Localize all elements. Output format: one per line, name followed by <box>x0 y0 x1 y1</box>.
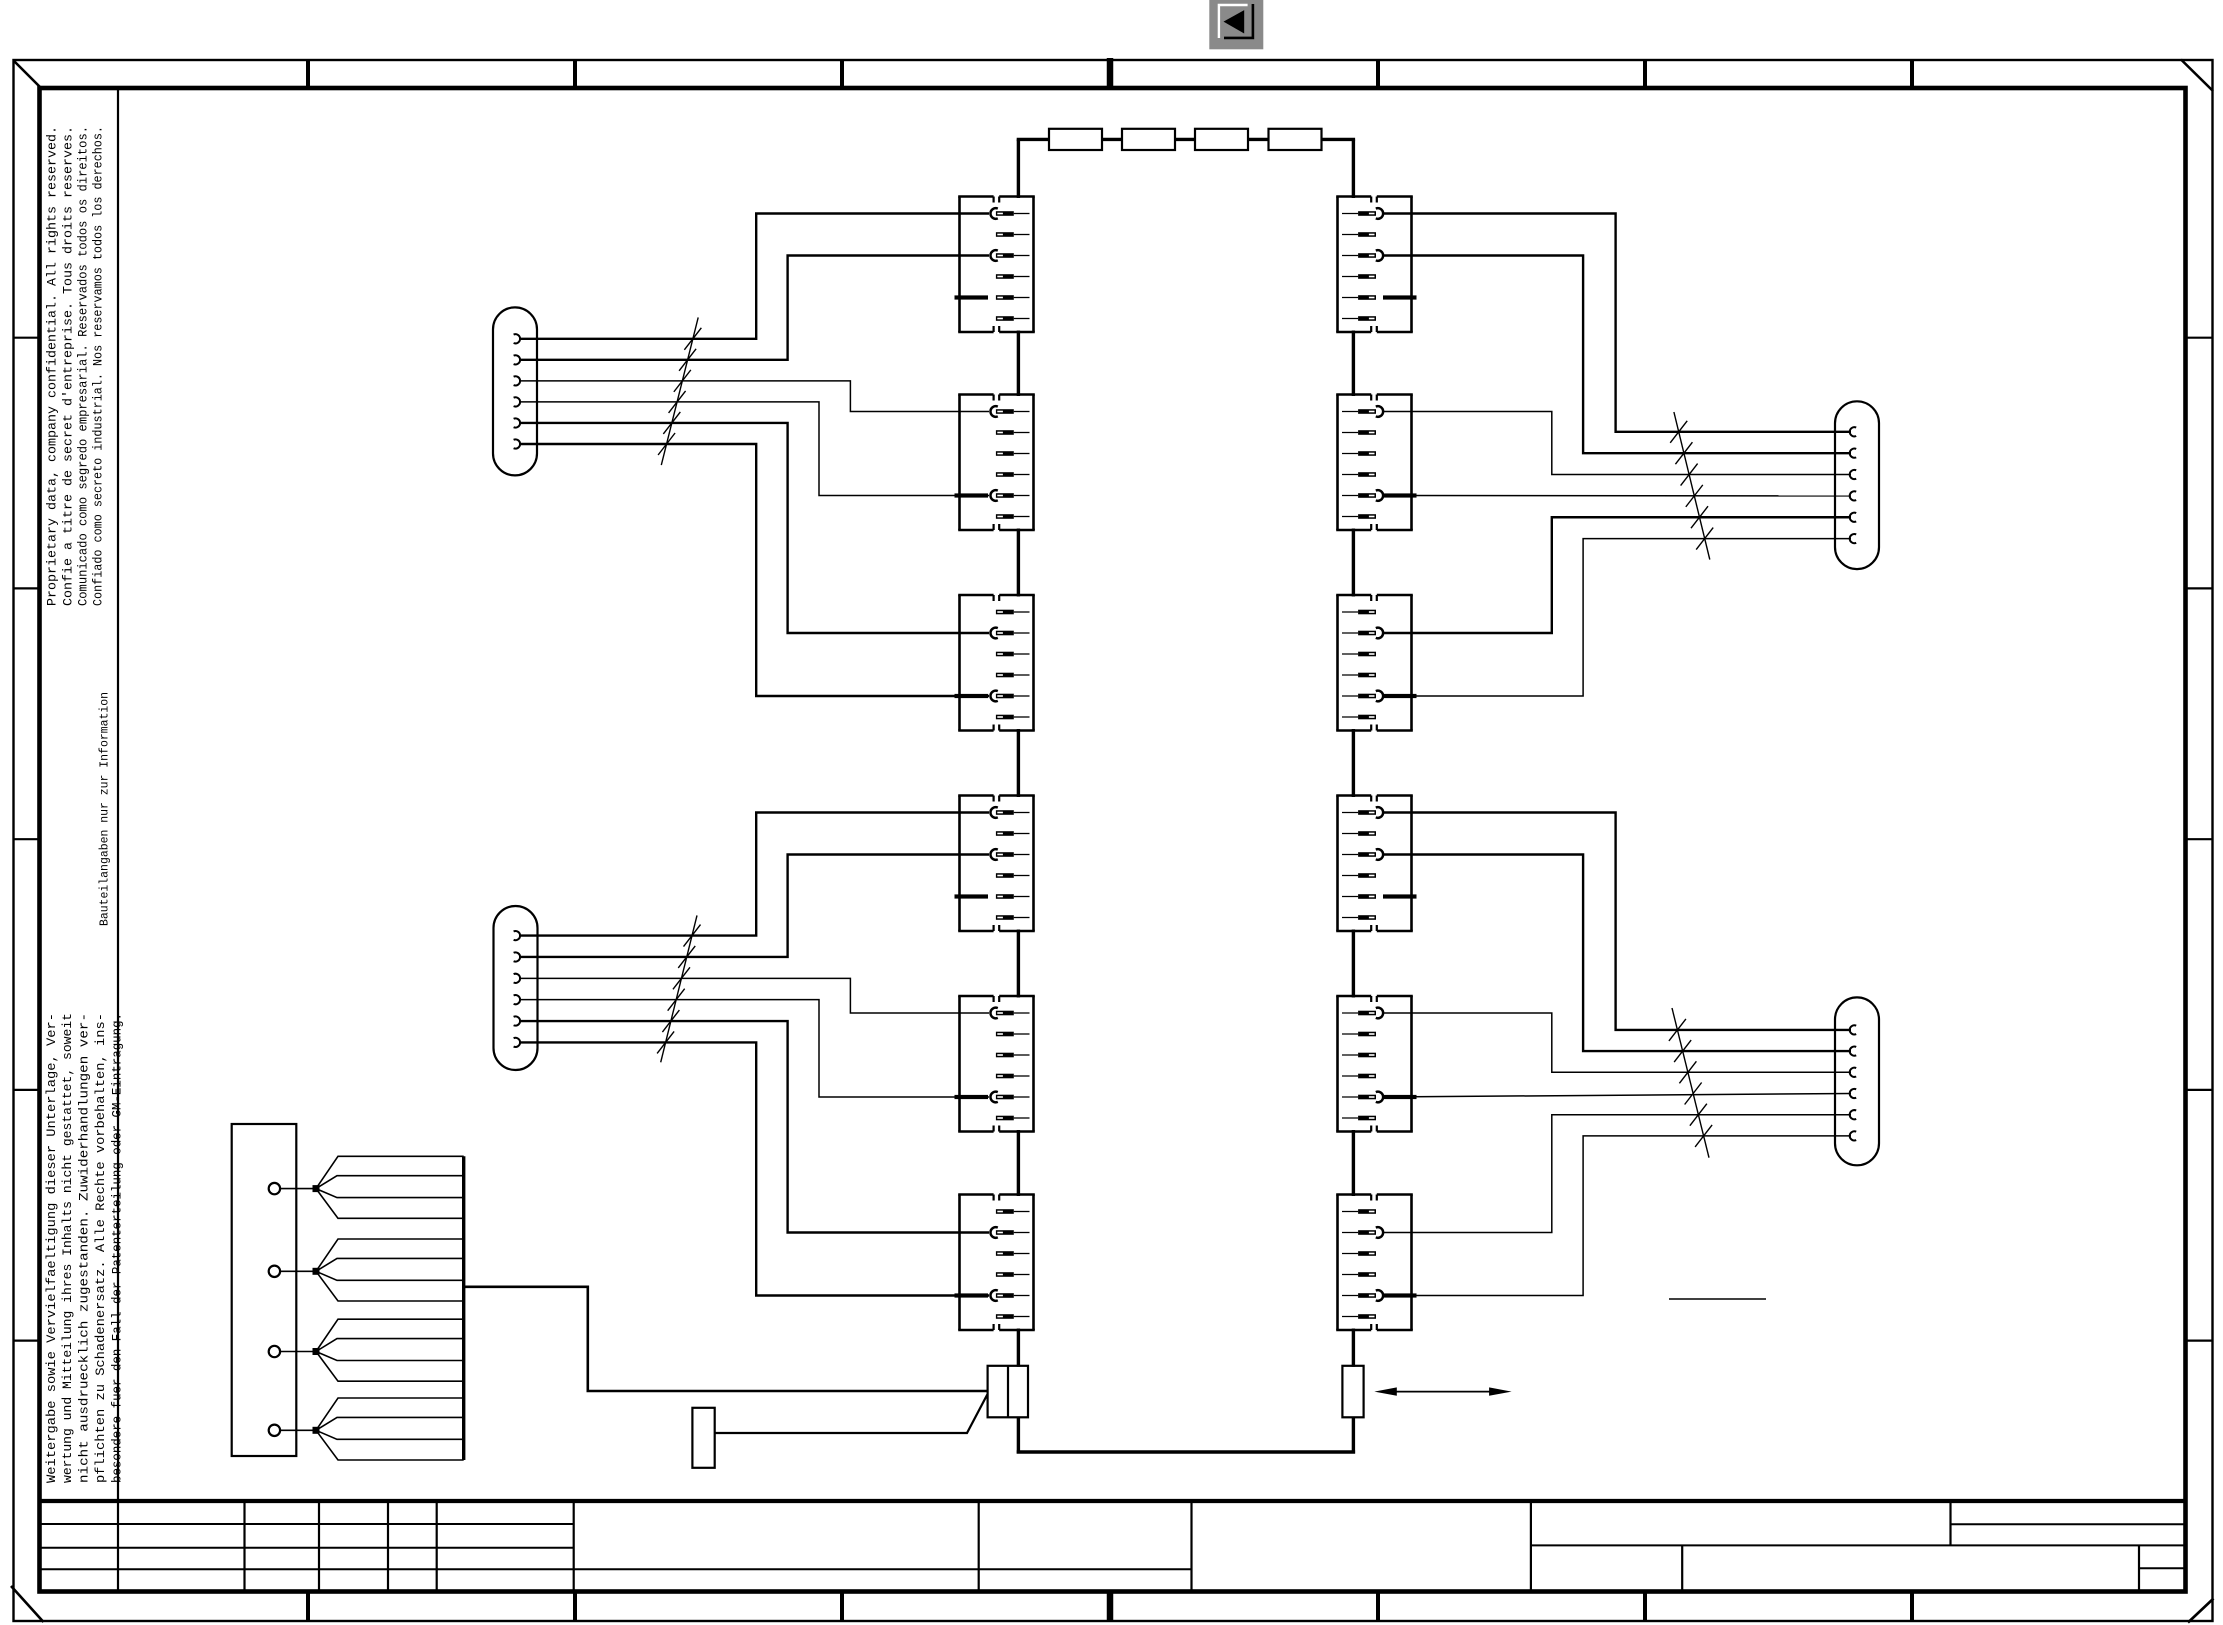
svg-text:Confie a titre de secret d'ent: Confie a titre de secret d'entreprise. T… <box>61 126 76 606</box>
svg-text:Proprietary data, company conf: Proprietary data, company confidential. … <box>45 126 60 606</box>
svg-text:nicht ausdruecklich zugestande: nicht ausdruecklich zugestanden. Zuwider… <box>78 1013 92 1483</box>
svg-text:Confiado como secreto industri: Confiado como secreto industrial. Nos re… <box>91 126 106 606</box>
svg-text:Weitergabe sowie Vervielfaelti: Weitergabe sowie Vervielfaeltigung diese… <box>45 1013 59 1483</box>
svg-text:besondere fuer den Fall der Pa: besondere fuer den Fall der Patenterteil… <box>111 1013 125 1483</box>
svg-text:wertung und Mitteilung ihres I: wertung und Mitteilung ihres Inhalts nic… <box>61 1013 75 1483</box>
svg-text:Bauteilangaben nur zur Informa: Bauteilangaben nur zur Information <box>98 692 112 926</box>
svg-text:Comunicado como segredo empres: Comunicado como segredo empresarial. Res… <box>76 126 91 606</box>
svg-text:pflichten zu Schadenersatz. A: pflichten zu Schadenersatz. Alle Rechte … <box>94 1013 108 1483</box>
